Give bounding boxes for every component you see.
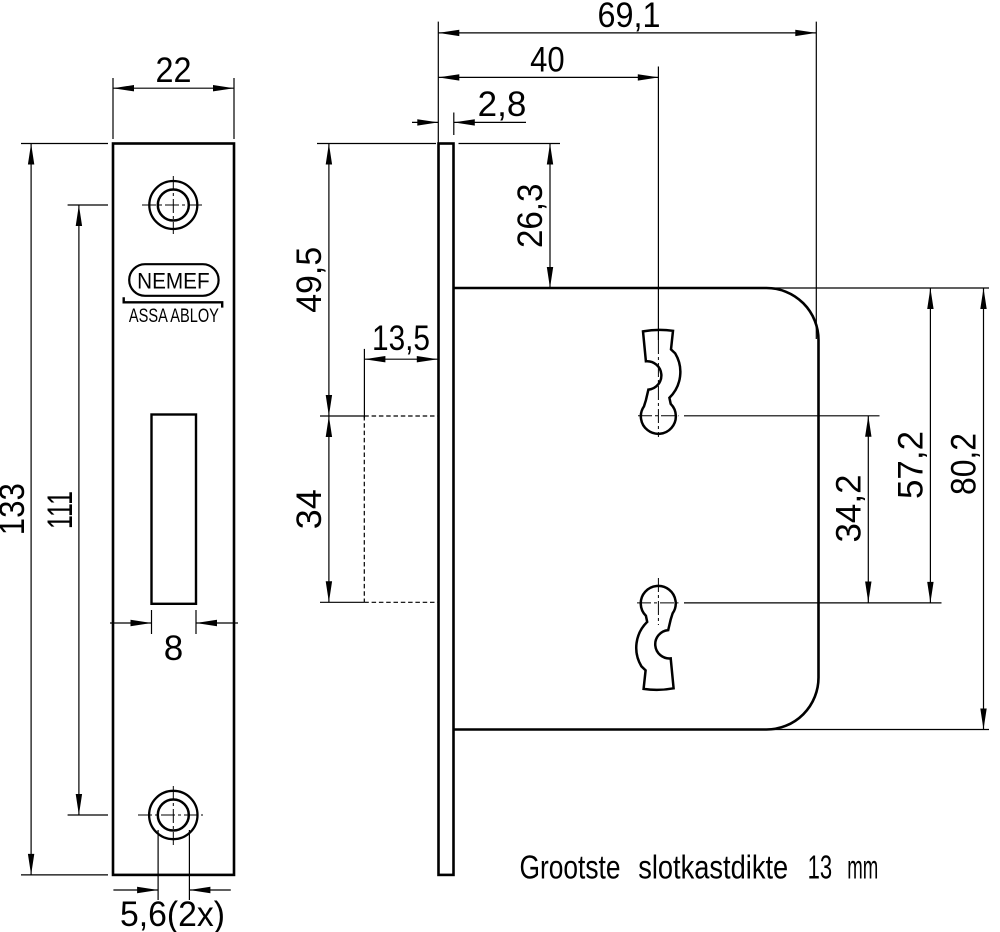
svg-text:13,5: 13,5: [372, 319, 430, 358]
top screw hole inner circle: [158, 190, 189, 221]
svg-text:5,6(2x): 5,6(2x): [120, 895, 225, 932]
dimension 2,8 (faceplate thickness): [412, 85, 526, 135]
svg-text:80,2: 80,2: [945, 433, 984, 495]
svg-text:133: 133: [0, 483, 32, 535]
dimension 5,6(2x) (screw hole diameter): [113, 830, 230, 932]
upper keyhole centerlines: [638, 340, 679, 437]
bottom screw hole inner circle: [158, 800, 189, 831]
svg-text:49,5: 49,5: [290, 247, 329, 313]
svg-text:mm: mm: [847, 848, 878, 885]
svg-text:69,1: 69,1: [598, 0, 661, 35]
svg-text:34,2: 34,2: [829, 475, 868, 543]
top screw hole centerlines: [142, 176, 203, 234]
svg-text:Grootste: Grootste: [520, 848, 621, 885]
logo underline: [124, 297, 223, 307]
svg-text:13: 13: [808, 848, 833, 885]
dimension 34 (slot height side view): [290, 416, 364, 602]
svg-text:40: 40: [530, 40, 565, 79]
lock case outline: [454, 288, 819, 730]
bottom screw hole countersink circle: [149, 791, 197, 839]
dimension 57,2 (case top to lower keyhole): [770, 288, 989, 603]
svg-text:slotkastdikte: slotkastdikte: [638, 848, 788, 885]
top screw hole countersink circle: [149, 181, 197, 229]
dimension 49,5 (top edge to slot): [290, 144, 436, 417]
NEMEF logo stadium: [129, 264, 218, 296]
dimension 34,2 (keyhole spacing): [684, 416, 942, 603]
svg-text:22: 22: [156, 51, 192, 90]
dimension 111 (screw hole spacing): [41, 205, 108, 815]
faceplate front view outline: [113, 144, 234, 875]
latch slot: [152, 415, 197, 604]
dimension 69,1 (case depth overall): [438, 0, 816, 339]
dimension 22 (faceplate width): [113, 51, 234, 139]
svg-text:111: 111: [41, 491, 80, 529]
dimension 80,2 (case height): [770, 288, 989, 730]
svg-text:NEMEF: NEMEF: [137, 268, 210, 293]
dimension 26,3 (top edge to case): [459, 144, 561, 289]
dimension 40 (keyhole distance): [438, 40, 659, 340]
svg-text:8: 8: [164, 629, 183, 668]
hidden latch slot dashed outline: [364, 416, 438, 602]
upper keyhole cutout: [641, 330, 680, 434]
svg-text:26,3: 26,3: [511, 184, 550, 249]
dimension 8 (slot width): [110, 610, 238, 668]
svg-text:57,2: 57,2: [891, 431, 930, 499]
svg-text:34: 34: [290, 489, 329, 529]
dimension 13,5 (latch depth): [364, 319, 437, 418]
svg-text:ASSA ABLOY: ASSA ABLOY: [129, 305, 219, 327]
lower keyhole centerlines: [637, 578, 679, 625]
lower keyhole cutout (rotated copy): [636, 586, 675, 690]
dimension 133 (faceplate height): [0, 144, 108, 875]
faceplate side view strip: [439, 144, 454, 875]
svg-text:2,8: 2,8: [478, 85, 527, 124]
bottom screw hole centerlines: [138, 786, 203, 845]
